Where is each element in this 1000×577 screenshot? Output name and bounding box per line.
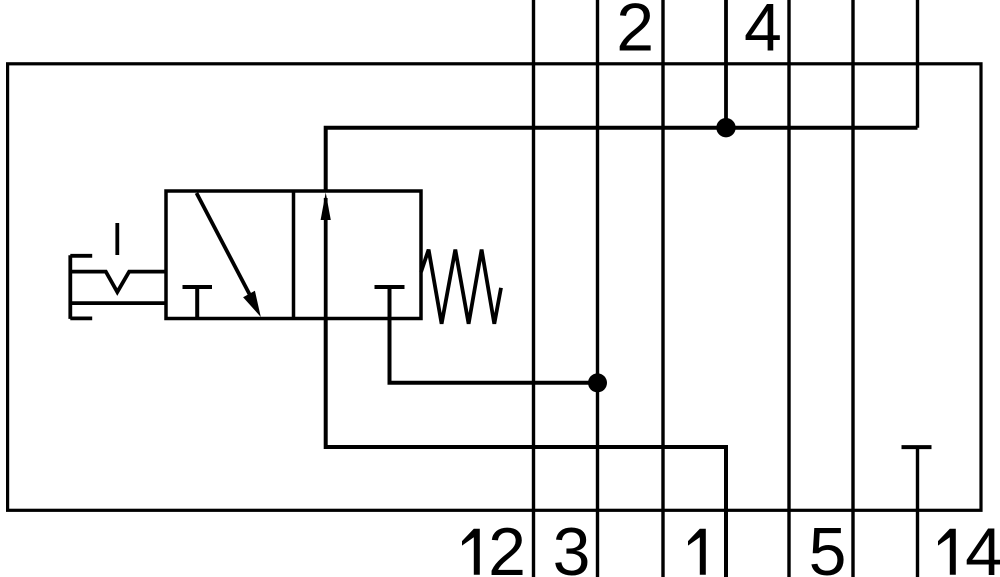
valve position divider — [292, 191, 296, 319]
rail 5 (vertical line x=789) — [787, 0, 790, 577]
manual actuator bracket — [70, 255, 92, 319]
svg-text:2: 2 — [488, 514, 526, 577]
right cell flow path arrow (vertical, points up) — [321, 192, 331, 318]
junction dot at rail 4 feed — [716, 118, 735, 137]
svg-text:3: 3 — [553, 514, 591, 577]
actuator upper rod with detent notch — [70, 272, 166, 292]
rail 14 top segment (vertical line x=917.5) — [916, 0, 919, 128]
port label 1 — [688, 529, 706, 575]
svg-text:4: 4 — [965, 514, 1000, 577]
port label 14 — [938, 514, 1000, 577]
svg-text:2: 2 — [616, 0, 654, 66]
spring return — [421, 250, 501, 324]
sub-base frame — [8, 64, 981, 511]
svg-text:5: 5 — [809, 514, 847, 577]
port 14 plugged stub (T cap) — [902, 447, 932, 577]
valve body (two-position 3/2 valve) — [166, 191, 421, 319]
rail between 5 and 14 (vertical line x=853) — [851, 0, 854, 577]
wire: valve outlet down and right to port 1 — [326, 319, 726, 577]
left cell flow path arrow (diagonal) — [197, 193, 261, 317]
left cell blocked port T — [183, 287, 213, 319]
port label 12 — [462, 514, 526, 577]
junction dot on rail 3 — [588, 373, 607, 392]
wire: pilot line y=127.5 from valve branch to rail 14 — [326, 128, 918, 191]
rail 3 (vertical line x=597.5) — [596, 0, 599, 577]
wire: right T stem down to junction on rail 3 — [390, 319, 598, 383]
detent pin tick — [115, 223, 119, 255]
port 4 feed (vertical line x=726 top segment) — [724, 0, 728, 128]
rail 12 (vertical line x=533.5) — [532, 0, 535, 577]
rail between 3 and 1 (vertical line x=663) — [661, 0, 664, 577]
actuator lower rod — [70, 301, 166, 305]
svg-text:4: 4 — [744, 0, 782, 66]
right cell blocked port T — [375, 287, 405, 319]
